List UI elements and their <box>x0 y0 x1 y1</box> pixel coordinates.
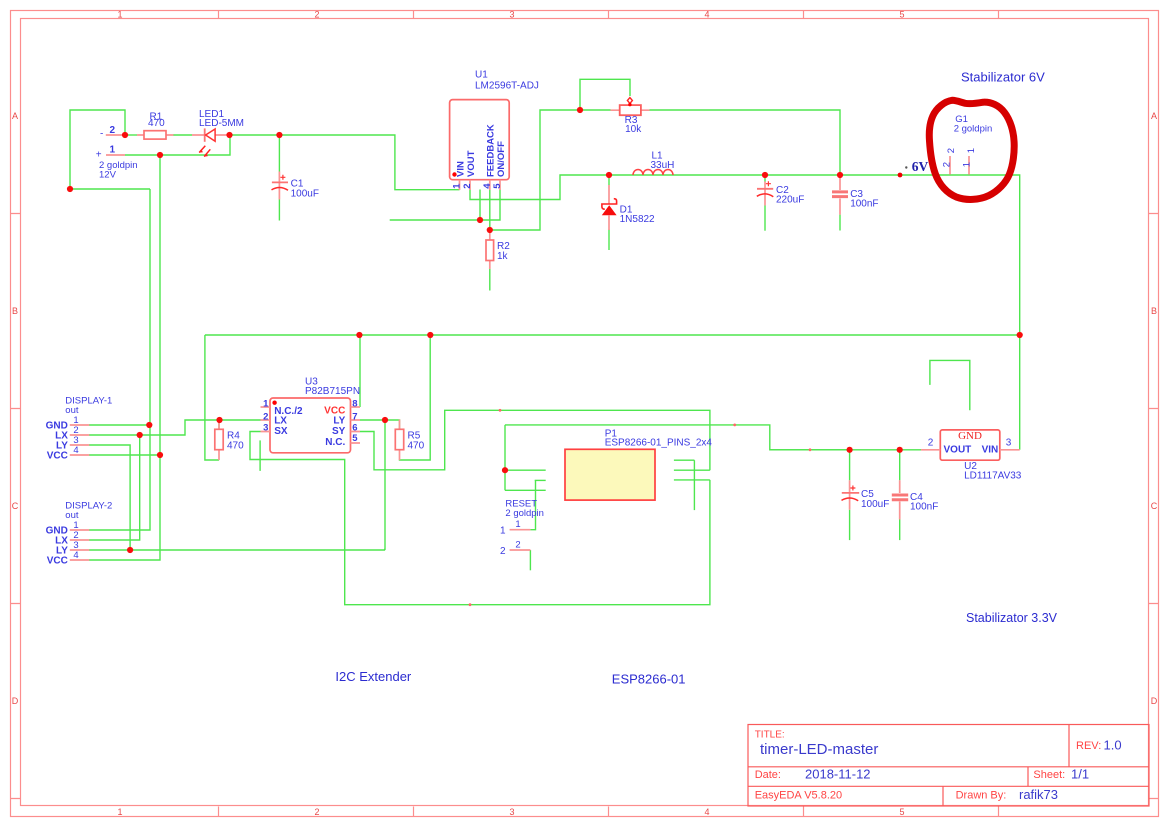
svg-text:5: 5 <box>899 10 904 20</box>
wire P1 right pin row 480 <box>674 479 710 481</box>
wire LED to C1 to U1 VIN <box>230 135 460 190</box>
hand-drawn red circle annotation around G1 <box>929 100 1014 199</box>
svg-text:VOUT: VOUT <box>466 150 477 177</box>
svg-text:U1: U1 <box>475 70 488 81</box>
svg-text:timer-LED-master: timer-LED-master <box>760 741 878 758</box>
svg-text:C: C <box>1151 501 1158 511</box>
svg-text:2: 2 <box>314 10 319 20</box>
svg-text:100uF: 100uF <box>291 188 319 199</box>
svg-text:-: - <box>100 129 103 140</box>
svg-text:LX: LX <box>274 416 287 427</box>
connector G1 2 goldpin <box>941 114 992 175</box>
svg-text:470: 470 <box>408 441 425 452</box>
wire DISPLAY-1 VCC row <box>89 454 160 456</box>
U3 pin numbers <box>263 399 269 434</box>
svg-text:VIN: VIN <box>456 161 467 177</box>
svg-text:N.C.: N.C. <box>325 437 345 448</box>
junction VOUT rail / D1 <box>606 172 612 178</box>
svg-text:2 goldpin: 2 goldpin <box>954 124 993 135</box>
wire DISPLAY-1 LX row and step up to U3 LX <box>89 420 261 435</box>
wire P1 right pin row 460 <box>674 459 695 461</box>
svg-text:SX: SX <box>274 426 288 437</box>
svg-text:4: 4 <box>73 550 78 561</box>
wire P1 left pin row 490 <box>505 489 546 491</box>
resistor R1 <box>137 111 174 139</box>
svg-text:ON/OFF: ON/OFF <box>496 141 507 177</box>
svg-text:ESP8266-01: ESP8266-01 <box>612 672 686 687</box>
svg-text:VOUT: VOUT <box>944 445 972 456</box>
connector DISPLAY-1 <box>46 395 113 461</box>
svg-text:2: 2 <box>941 162 952 167</box>
wire LX column x140 <box>89 435 140 540</box>
junction DISPLAY-1 VCC <box>157 452 163 458</box>
svg-text:1: 1 <box>263 399 269 410</box>
TITLE BLOCK <box>748 725 1149 807</box>
wire D1 bottom dangling <box>608 230 610 251</box>
svg-text:Stabilizator 3.3V: Stabilizator 3.3V <box>966 611 1058 625</box>
svg-text:1: 1 <box>500 526 506 537</box>
junction U1 GND net <box>477 217 483 223</box>
connector J? 12V input pins <box>96 125 138 180</box>
junction C4 top <box>897 447 903 453</box>
svg-text:LM2596T-ADJ: LM2596T-ADJ <box>475 81 539 92</box>
svg-text:VCC: VCC <box>47 450 68 461</box>
U3 pin1 dot <box>272 401 276 405</box>
svg-text:3: 3 <box>509 10 514 20</box>
inductor L1 <box>633 151 674 176</box>
junction minus corner <box>67 186 73 192</box>
IC U3 P82B715PN <box>261 377 361 453</box>
junction C5 top <box>847 447 853 453</box>
svg-text:4: 4 <box>73 445 78 456</box>
junction at C1 top <box>276 132 282 138</box>
svg-text:2: 2 <box>515 539 520 550</box>
resistor R4 <box>215 419 244 460</box>
wire C5 top <box>849 450 851 481</box>
svg-text:100uF: 100uF <box>861 499 889 510</box>
svg-text:REV:: REV: <box>1076 740 1101 752</box>
svg-text:6: 6 <box>352 423 357 434</box>
svg-text:2: 2 <box>946 148 957 153</box>
wire 12V plus run to LED anode <box>125 135 230 155</box>
wire RESET junction vertical <box>504 425 506 490</box>
svg-text:12V: 12V <box>99 170 117 181</box>
wire VCC bus y335 <box>205 334 1020 336</box>
wire C4 bottom dangling <box>899 520 901 541</box>
wire R3 right to rail <box>650 110 841 175</box>
U3 pin stubs <box>261 407 361 443</box>
wire GND net y220 <box>390 190 500 221</box>
wire P1 left pin row 480 <box>535 479 546 481</box>
svg-text:33uH: 33uH <box>651 160 675 171</box>
svg-text:Sheet:: Sheet: <box>1033 769 1065 781</box>
svg-text:3: 3 <box>509 807 514 817</box>
wire GND column x150 <box>89 189 150 530</box>
net label 6V <box>898 159 929 178</box>
svg-text:5: 5 <box>492 183 503 189</box>
U1 pin1 dot <box>452 172 456 176</box>
capacitor C4 <box>892 480 939 519</box>
svg-text:3: 3 <box>263 423 268 434</box>
svg-text:1N5822: 1N5822 <box>620 214 655 225</box>
junction R3 left / feedback <box>577 107 583 113</box>
svg-text:SY: SY <box>332 426 346 437</box>
module P1 ESP8266-01_PINS_2x4 <box>565 428 712 500</box>
U1 pin numbers rotated <box>452 183 504 189</box>
IC U2 LD1117AV33 <box>921 430 1022 481</box>
LED LED1 <box>192 109 244 157</box>
svg-text:2: 2 <box>462 183 473 188</box>
svg-text:100nF: 100nF <box>850 198 878 209</box>
svg-text:1: 1 <box>452 183 463 189</box>
wire U2 GND hook dangling <box>930 360 970 410</box>
svg-text:LD1117AV33: LD1117AV33 <box>964 470 1022 481</box>
wire U2 VOUT rail <box>770 449 921 451</box>
wire R3 top loop <box>580 79 630 110</box>
wire U3 SY run to ESP right pins <box>360 410 710 470</box>
wire DISPLAY-1 LY row down column x130 <box>89 445 130 550</box>
svg-text:LY: LY <box>333 415 345 426</box>
junction C3 top <box>837 172 843 178</box>
svg-text:1/1: 1/1 <box>1071 766 1089 781</box>
svg-text:3: 3 <box>1006 437 1012 448</box>
svg-text:C: C <box>12 501 19 511</box>
wire P1 right row 460 dangling down <box>693 460 695 510</box>
wire DISPLAY-2 LY long run <box>89 549 385 551</box>
wire U3 LY to R5 <box>360 420 400 430</box>
svg-text:2018-11-12: 2018-11-12 <box>805 766 871 781</box>
resistor R2 <box>486 230 510 269</box>
svg-text:10k: 10k <box>625 124 642 135</box>
wire R3 left <box>580 109 611 111</box>
wire RESET pin2 dangling <box>529 550 531 570</box>
resistor R5 <box>395 420 424 461</box>
svg-text:1: 1 <box>515 519 520 530</box>
wire rail L1 right to 6V corner down to U2 VIN <box>673 175 1020 450</box>
diode D1 1N5822 schottky <box>602 185 655 230</box>
svg-text:rafik73: rafik73 <box>1019 787 1058 802</box>
U1 pin stubs 1,2,4,5 <box>460 180 501 190</box>
svg-text:2: 2 <box>263 412 268 423</box>
svg-text:2: 2 <box>928 438 934 449</box>
svg-text:1: 1 <box>117 10 122 20</box>
U3 pin names <box>274 406 345 448</box>
svg-text:1: 1 <box>110 144 116 155</box>
junction at LED1 anode <box>226 132 232 138</box>
svg-text:ESP8266-01_PINS_2x4: ESP8266-01_PINS_2x4 <box>605 438 713 449</box>
junction LY / R5 <box>382 417 388 423</box>
wire C5 bottom dangling <box>849 510 851 540</box>
svg-text:B: B <box>1151 306 1157 316</box>
junction DISPLAY-2 LY <box>127 547 133 553</box>
wire LY down column x385 <box>384 420 385 549</box>
svg-text:2: 2 <box>110 125 116 136</box>
svg-text:2 goldpin: 2 goldpin <box>505 508 544 519</box>
wire R1 left <box>125 134 137 136</box>
svg-text:2: 2 <box>314 807 319 817</box>
junction DISPLAY-1 GND <box>146 422 152 428</box>
junction bus / U3 VCC <box>356 332 362 338</box>
svg-text:1k: 1k <box>497 251 509 262</box>
junction P1 / 3.3V <box>502 467 508 473</box>
wire U3 VCC pin8 up to bus <box>359 335 361 407</box>
wire R5 bottom to bus <box>400 335 431 460</box>
wire R4 top to LX <box>218 419 220 430</box>
wire dangling stub near U3 pin3 <box>259 440 261 471</box>
svg-text:220uF: 220uF <box>776 195 804 206</box>
wire C2 bottom dangling <box>764 206 766 231</box>
wire C3 bottom dangling <box>839 215 841 231</box>
junction FEEDBACK / R2 <box>487 227 493 233</box>
junction at connector pin2 / R1 <box>122 132 128 138</box>
wire U1 pin3 GND <box>479 190 481 221</box>
svg-text:FEEDBACK: FEEDBACK <box>485 124 496 177</box>
svg-text:1: 1 <box>962 162 973 167</box>
wire RESET pin1 up to P1 <box>530 480 535 529</box>
wire C1 top <box>278 135 280 172</box>
wire R2 bottom dangling <box>489 269 491 291</box>
wire joint marks <box>469 409 812 606</box>
wire P1 left pin row 470 <box>505 469 546 471</box>
wire DISPLAY-1 GND row <box>89 424 149 426</box>
svg-text:EasyEDA V5.8.20: EasyEDA V5.8.20 <box>755 790 842 802</box>
svg-text:8: 8 <box>352 399 357 410</box>
svg-text:A: A <box>12 111 18 121</box>
wire G1 rail segment <box>609 174 673 176</box>
wire R1 to LED <box>173 134 192 136</box>
wire minus to GND column <box>70 188 150 190</box>
svg-text:470: 470 <box>227 441 244 452</box>
svg-text:1: 1 <box>966 148 977 153</box>
U1 pin names rotated <box>456 124 507 177</box>
IC U1 LM2596T-ADJ <box>450 70 539 191</box>
wire 12V minus top loop <box>70 110 125 189</box>
svg-text:6V: 6V <box>912 159 929 174</box>
capacitor C5 <box>842 480 890 510</box>
svg-text:A: A <box>1151 111 1157 121</box>
capacitor C1 <box>272 172 319 200</box>
connector DISPLAY-2 <box>46 500 113 566</box>
wire bus left down to R4 bottom <box>205 335 219 460</box>
svg-text:D: D <box>1151 696 1158 706</box>
wire U3 SX run to ESP bottom loop <box>250 432 710 605</box>
capacitor C2 <box>757 181 805 206</box>
wire P1 right pin row 470 <box>674 469 710 471</box>
junction +12V to VCC column <box>157 152 163 158</box>
svg-text:GND: GND <box>958 430 982 442</box>
svg-text:+: + <box>96 150 102 161</box>
resistor R3 <box>611 98 650 135</box>
svg-text:5: 5 <box>899 807 904 817</box>
wire D1 top <box>608 175 610 185</box>
wire C1 bottom <box>278 200 280 221</box>
svg-text:B: B <box>12 306 18 316</box>
svg-text:5: 5 <box>352 433 358 444</box>
svg-text:VCC: VCC <box>47 555 68 566</box>
wire U1 VOUT run <box>470 175 610 200</box>
wire FEEDBACK down <box>489 190 491 231</box>
junction bus / 6V vertical <box>1017 332 1023 338</box>
junction LX / R4 <box>216 417 222 423</box>
wire VCC column x160 <box>89 155 160 560</box>
svg-text:100nF: 100nF <box>910 502 938 513</box>
big section titles <box>335 70 1057 687</box>
wire 3.3V to P1: y425 run to U2 rail <box>505 425 850 450</box>
junction C2 top <box>762 172 768 178</box>
svg-text:VIN: VIN <box>982 445 999 456</box>
svg-text:Date:: Date: <box>755 769 781 781</box>
svg-text:2: 2 <box>500 546 506 557</box>
wire C2 top <box>764 175 766 182</box>
wire C4 top <box>899 450 901 481</box>
svg-text:P82B715PN: P82B715PN <box>305 386 360 397</box>
svg-text:Stabilizator 6V: Stabilizator 6V <box>961 70 1045 85</box>
svg-text:4: 4 <box>704 10 709 20</box>
capacitor C3 <box>832 175 879 215</box>
svg-text:TITLE:: TITLE: <box>755 730 785 741</box>
junction bus / R5 return <box>427 332 433 338</box>
svg-text:4: 4 <box>704 807 709 817</box>
svg-text:Drawn By:: Drawn By: <box>956 790 1007 802</box>
svg-text:I2C Extender: I2C Extender <box>335 669 412 684</box>
connector RESET 2 goldpin <box>500 499 544 557</box>
svg-text:1: 1 <box>117 807 122 817</box>
wire FEEDBACK to R3 <box>490 110 580 230</box>
svg-text:D: D <box>12 696 19 706</box>
svg-text:7: 7 <box>352 412 357 423</box>
svg-text:1.0: 1.0 <box>1104 738 1122 753</box>
svg-text:470: 470 <box>148 118 165 129</box>
junction DISPLAY-1 LX <box>137 432 143 438</box>
svg-text:LED-5MM: LED-5MM <box>199 118 244 129</box>
